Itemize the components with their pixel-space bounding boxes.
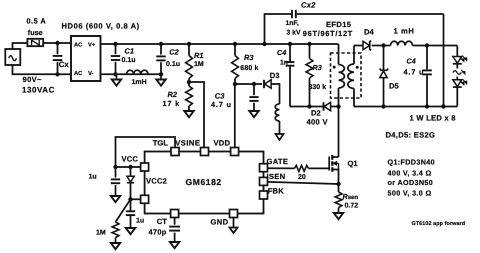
svg-text:HD06 (600 V, 0.8 A): HD06 (600 V, 0.8 A) [62,22,140,31]
label 0.1u C2 [166,61,180,68]
svg-text:AC: AC [74,41,83,48]
label C4 1n [277,48,286,57]
svg-text:Rsen: Rsen [343,192,359,201]
svg-text:GT6102 app forward: GT6102 app forward [412,221,466,227]
wire clamp node [290,104,324,108]
label 400 V, 3.4 [388,168,432,177]
wire bridge V- rail [101,73,162,75]
wire gate [309,167,330,169]
pin TGL [171,148,179,156]
wire D2 to drain node [331,104,341,108]
pin FBK [260,191,268,199]
ground below Cvcc [111,196,120,202]
svg-text:GATE: GATE [267,157,289,166]
resistor R2 17k [186,82,193,111]
label 20 [298,174,306,181]
svg-text:V-: V- [88,71,94,77]
pin VCC [141,163,149,171]
svg-text:FBK: FBK [268,187,285,196]
svg-text:20: 20 [298,174,306,181]
label 1n [280,59,288,66]
wire LED top drop [456,46,458,57]
svg-text:CT: CT [157,217,167,226]
label 1 mH [394,27,415,36]
label C1 [125,47,134,56]
resistor R1 1M [186,42,193,82]
wire L2 to LED+ [413,43,458,47]
label Cx [59,60,70,69]
label 1 W LED x 8 [410,114,456,123]
wire fuse to bridge [43,42,71,44]
wire VDD riser [235,84,262,148]
capacitor C2 0.1u [156,42,165,77]
ground below Cvcc2 [126,228,135,234]
wire VCC [113,165,141,169]
wire HV+ rail [101,43,339,45]
svg-text:1u: 1u [89,173,97,180]
label Q1 [348,159,359,168]
svg-text:Cx: Cx [59,60,70,69]
ground below R4 [111,243,120,249]
wire TGL to VCC node [116,137,176,167]
resistor Rsen 0.72 [335,184,342,213]
svg-text:AC: AC [74,70,83,77]
svg-text:1M: 1M [96,230,106,237]
svg-text:3 kV: 3 kV [287,30,301,37]
label VCC2 [146,176,167,185]
label R1 [194,51,203,60]
diode D5 [380,46,389,107]
pin VDD [231,148,239,156]
svg-text:C4: C4 [277,48,286,57]
resistor Rg 20 [268,165,309,171]
label 0.1u C1 [122,57,136,64]
pin VCC2 [141,195,149,203]
label 96T/96T/12T [303,29,353,38]
svg-text:400 V, 3.4 Ω: 400 V, 3.4 Ω [388,168,432,177]
LED string break [453,70,465,80]
svg-text:ISEN: ISEN [267,172,286,181]
label 1nF, [286,20,299,27]
svg-text:1 W LED x 8: 1 W LED x 8 [410,114,456,123]
wire AC to fuse [13,43,28,49]
svg-text:Q1: Q1 [348,159,359,168]
svg-text:500 V, 3.0 Ω: 500 V, 3.0 Ω [388,188,432,197]
pin GND [230,210,238,218]
resistor R3 680k [232,42,239,84]
label D3 [270,71,280,80]
svg-text:0.72: 0.72 [345,203,359,210]
label GT6102 app forward [412,221,466,227]
svg-text:C2: C2 [169,48,179,57]
svg-text:130VAC: 130VAC [22,86,55,95]
label 400 V [307,117,329,126]
label D4 [364,28,374,37]
inductor L1 1mH bottom [127,70,149,74]
svg-text:GND: GND [211,218,229,227]
pin CT [171,210,179,218]
svg-text:R2: R2 [168,90,178,99]
svg-text:TGL: TGL [153,138,169,147]
svg-text:4.7 u: 4.7 u [211,100,232,109]
bridge rectifier HD06 [71,36,101,81]
label 3 kV [287,30,301,37]
capacitor C4 4.7u out [422,46,432,107]
capacitor C1 0.1u [111,42,120,77]
label D4,D5: ES2G [386,131,436,140]
node R1-R2 [187,80,191,84]
svg-text:VSINE: VSINE [175,138,200,147]
ground below C3 [249,111,258,117]
capacitor C3 4.7u [249,82,258,111]
capacitor Cx [53,41,63,77]
fuse F1 [27,39,43,46]
svg-text:680 k: 680 k [240,64,258,72]
wire diagonal to 1M [116,199,131,222]
label fuse [28,28,43,37]
pin GATE [260,164,268,172]
node VDD top [233,82,237,86]
wire AC bottom [13,65,72,74]
capacitor Cvcc2 1u [126,199,135,228]
label 0.72 [345,203,359,210]
label CT [157,217,167,226]
label C4 out [407,56,416,65]
label VCC [122,155,139,164]
resistor R3 330k clamp [306,42,313,107]
svg-text:EFD15: EFD15 [326,20,352,29]
label ISEN [267,172,286,181]
label GND [211,218,229,227]
svg-text:GM6182: GM6182 [186,177,222,187]
svg-text:1 mH: 1 mH [394,27,415,36]
label GATE [267,157,289,166]
svg-text:1M: 1M [194,61,204,68]
svg-text:17 k: 17 k [163,99,181,108]
svg-text:Cx2: Cx2 [301,1,316,10]
svg-text:90V~: 90V~ [23,75,43,84]
ground below R2 [184,111,193,117]
svg-text:0.5 A: 0.5 A [27,17,47,26]
label 1u vcc2 [136,217,144,224]
svg-text:C1: C1 [125,47,134,56]
svg-text:0.1u: 0.1u [122,57,136,64]
wire D3 to aux [271,84,279,104]
label 470p [149,227,167,236]
label 4.7 u out [404,68,425,77]
svg-text:1nF,: 1nF, [286,20,299,27]
diode D4 [363,41,371,50]
label C3 [215,91,225,100]
node VCC2 [128,197,132,201]
label FBK [268,187,285,196]
capacitor Cvcc 1u [111,167,120,196]
label C2 [169,48,179,57]
label 130VAC [22,86,55,95]
label D5 [389,82,399,91]
secondary winding [348,46,354,107]
label 500 V, 3.0 [388,188,432,197]
svg-text:D2: D2 [311,108,321,117]
ground below C2 [156,74,165,85]
primary dot [333,66,336,69]
wire drain [338,107,340,158]
svg-text:0.1u: 0.1u [166,61,180,68]
label HD06 (600 V, 0.8 A) [62,22,140,31]
wire D4 to L2 [372,43,391,47]
wire to VSINE pin [189,82,204,148]
label 1mH [132,79,147,86]
label 0.5 A [27,17,47,26]
svg-text:Q1:FDD3N40: Q1:FDD3N40 [388,157,435,166]
svg-text:VCC2: VCC2 [146,176,167,185]
transistor Q1 [329,155,338,184]
svg-text:R1: R1 [194,51,203,60]
label Rsen [343,192,359,201]
svg-text:VDD: VDD [214,138,231,147]
label or AOD3N50 [388,178,434,187]
label EFD15 [326,20,352,29]
ground aux winding [276,134,284,140]
aux winding [275,104,279,134]
capacitor C4 1n clamp [286,42,295,107]
wire secondary bottom rail [354,104,457,108]
svg-text:R3: R3 [244,53,254,62]
svg-text:330 k: 330 k [309,83,327,91]
label 1M r4 [96,230,106,237]
svg-text:VCC: VCC [122,155,139,164]
label 1u vcc [89,173,97,180]
svg-text:470p: 470p [149,227,167,236]
inductor L2 1 mH [391,41,413,45]
node source [336,182,340,186]
label VDD [214,138,231,147]
label TGL [153,138,169,147]
label VSINE [175,138,200,147]
primary winding [339,44,345,107]
secondary dot [356,66,359,69]
svg-text:1mH: 1mH [132,79,147,86]
label Q1:FDD3N40 [388,157,435,166]
label 680 k [240,64,258,72]
svg-text:D5: D5 [389,82,399,91]
wire secondary top [354,45,363,47]
label 330 k [309,83,327,91]
label Cx2 [301,1,316,10]
svg-text:fuse: fuse [28,28,43,37]
diode D1 vcc [127,165,134,199]
label 17 k [163,99,181,108]
label 1M R1 [194,61,204,68]
svg-text:D4: D4 [364,28,374,37]
diode D2 400V [324,102,331,110]
svg-text:D4,D5: ES2G: D4,D5: ES2G [386,131,436,140]
transformer core box [331,53,362,98]
LED D6 top [453,56,467,69]
wire Cx2 right drop [443,14,445,107]
pin VSINE [201,148,209,156]
wire VCC2 [131,198,142,200]
pin ISEN [260,177,268,185]
label D2 [311,108,321,117]
resistor R4 1M [112,222,119,243]
label R3 680k [244,53,254,62]
ground GND pin [230,218,238,234]
svg-text:4.7 u: 4.7 u [404,68,425,77]
svg-text:V+: V+ [88,42,96,48]
svg-text:D3: D3 [270,71,280,80]
label 4.7 u C3 [211,100,232,109]
svg-text:C4: C4 [407,56,416,65]
capacitor Cx2 1nF 3kV [262,10,443,46]
svg-text:96T/96T/12T: 96T/96T/12T [303,29,353,38]
svg-text:1n: 1n [280,59,288,66]
svg-text:R3: R3 [313,63,322,72]
AC source 90-130VAC [5,49,20,65]
capacitor CT 470p [169,217,180,242]
ground below CT cap [170,242,179,248]
ground below Rsen [334,213,343,219]
LED D7 bottom [453,79,467,107]
svg-text:or AOD3N50: or AOD3N50 [388,178,434,187]
label R2 [168,90,178,99]
wire ISEN [268,182,339,184]
svg-text:1u: 1u [136,217,144,224]
diode D3 [264,80,271,88]
svg-text:400 V: 400 V [307,117,329,126]
IC GM6182 body [145,152,264,214]
ground below C1 [112,74,121,85]
label 90V~ [23,75,43,84]
label R3 330k [313,63,322,72]
